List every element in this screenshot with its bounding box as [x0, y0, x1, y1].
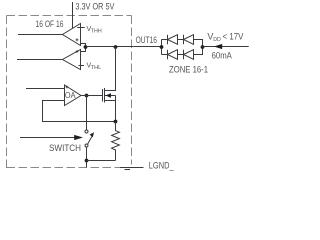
resistor R1: [112, 122, 120, 161]
svg-text:OUT16: OUT16: [136, 35, 157, 45]
ground LGND bar 1: [120, 167, 144, 169]
comparator U2 output stub to node: [81, 47, 86, 52]
svg-text:THL: THL: [91, 65, 102, 71]
svg-text:16 OF 16: 16 OF 16: [36, 19, 64, 29]
svg-text:OA: OA: [65, 90, 76, 100]
svg-text:THH: THH: [91, 28, 102, 34]
diode bridge left riser: [162, 40, 168, 55]
supply wire 3.3V/5V: [72, 2, 74, 28]
body tie: [115, 96, 117, 101]
svg-text:ZONE 16-1: ZONE 16-1: [169, 64, 208, 74]
svg-text:LGND_: LGND_: [149, 161, 175, 171]
comparator U1 (VTHH): [63, 24, 81, 46]
channel bar: [104, 88, 106, 103]
switch S1 blade arrowhead: [90, 132, 94, 137]
diode D1: [168, 35, 184, 45]
comparator U1 plus mark: [76, 38, 79, 41]
gate bar: [102, 89, 104, 102]
source stub: [105, 101, 116, 122]
svg-text:60mA: 60mA: [212, 51, 232, 61]
svg-text:< 17V: < 17V: [223, 32, 244, 42]
diode D2: [184, 35, 203, 47]
wire OUT16: [86, 46, 162, 48]
comparator U1 input wire: [18, 34, 63, 36]
comparator U1 minus mark and VTHH tap wire: [77, 27, 85, 29]
wire VDD feed: [203, 46, 249, 48]
op-amp feedback loop wire: [43, 101, 116, 122]
node C (op-amp output): [85, 94, 89, 98]
node B (drain tap on OUT16 wire): [114, 45, 118, 49]
comparator U2 input wire: [17, 59, 63, 61]
VDD current arrowhead: [214, 44, 222, 49]
switch S1 bottom contact: [85, 144, 88, 147]
wire op-amp output to gate: [81, 95, 103, 97]
chip boundary dashed box: [7, 16, 132, 169]
node F (bridge left): [160, 45, 164, 49]
comparator U2 minus mark and VTHL tap wire: [79, 65, 85, 67]
diode D3: [168, 50, 184, 60]
node D (source/feedback junction): [114, 120, 118, 124]
wire bottom rail to resistor: [87, 160, 116, 162]
node E (bottom rail junction): [85, 159, 89, 163]
comparator U2 (VTHL): [63, 50, 81, 70]
transistor M1 (NMOS): [103, 47, 116, 122]
wire switch bottom to ground rail: [86, 147, 88, 168]
node A (comparator junction): [84, 45, 88, 49]
svg-text:SWITCH: SWITCH: [49, 143, 81, 153]
diode D4: [184, 47, 203, 59]
node G (bridge right): [201, 45, 205, 49]
svg-text:DD: DD: [213, 37, 221, 43]
op-amp OA: [65, 85, 82, 106]
op-amp input wire: [26, 88, 65, 90]
comparator U1 output stub to node: [81, 44, 86, 48]
switch S1 blade: [88, 136, 92, 144]
body stub: [105, 95, 116, 97]
op-amp plus mark: [66, 86, 69, 89]
drain stub: [105, 47, 116, 91]
wire op-amp output down to switch: [86, 96, 88, 131]
transistor M1 body arrow: [105, 93, 111, 98]
svg-text:3.3V OR 5V: 3.3V OR 5V: [75, 2, 114, 12]
ground LGND bar 2: [125, 169, 131, 171]
switch S1 top contact: [85, 130, 88, 133]
comparator U2 plus mark: [76, 50, 79, 53]
switch annotation arrow: [20, 137, 75, 139]
